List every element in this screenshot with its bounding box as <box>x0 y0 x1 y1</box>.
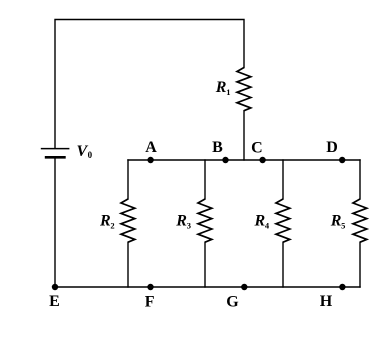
svg-text:R: R <box>175 213 187 230</box>
svg-text:B: B <box>212 139 223 156</box>
svg-text:C: C <box>251 139 263 156</box>
svg-text:R: R <box>215 79 227 96</box>
svg-text:D: D <box>326 139 338 156</box>
svg-text:2: 2 <box>110 221 114 231</box>
svg-text:1: 1 <box>226 87 230 97</box>
svg-text:G: G <box>226 293 239 310</box>
svg-text:H: H <box>320 293 333 310</box>
svg-text:R: R <box>330 213 342 230</box>
svg-text:5: 5 <box>341 221 345 231</box>
svg-text:E: E <box>49 293 60 310</box>
svg-text:4: 4 <box>265 221 270 231</box>
svg-text:3: 3 <box>187 221 191 231</box>
svg-text:0: 0 <box>88 150 93 160</box>
svg-text:A: A <box>145 139 157 156</box>
svg-text:R: R <box>254 213 266 230</box>
svg-text:R: R <box>99 213 111 230</box>
svg-text:F: F <box>145 293 155 310</box>
